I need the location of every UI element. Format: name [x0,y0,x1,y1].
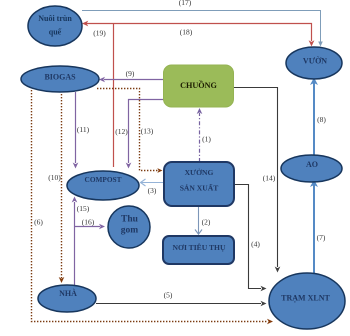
svg-text:gom: gom [121,226,139,236]
svg-text:COMPOST: COMPOST [85,175,122,184]
svg-text:NHÀ: NHÀ [59,288,77,298]
svg-text:(13): (13) [141,127,154,136]
svg-text:(14): (14) [263,174,276,183]
svg-text:(2): (2) [202,218,211,227]
svg-text:(19): (19) [93,29,106,38]
svg-text:(6): (6) [34,218,43,227]
svg-text:(15): (15) [77,204,90,213]
svg-text:SẢN XUẤT: SẢN XUẤT [180,182,219,192]
svg-text:TRẠM XLNT: TRẠM XLNT [281,293,330,302]
svg-text:(11): (11) [77,125,90,134]
svg-text:(16): (16) [82,218,95,227]
svg-text:(9): (9) [126,69,135,78]
svg-text:(1): (1) [202,135,211,144]
svg-text:(17): (17) [179,0,192,7]
svg-text:NƠI TIÊU THỤ: NƠI TIÊU THỤ [173,242,226,252]
svg-text:(8): (8) [317,115,326,124]
svg-text:(5): (5) [164,291,173,300]
svg-text:Thu: Thu [121,215,139,225]
svg-text:VƯỜN: VƯỜN [303,56,327,66]
svg-text:(3): (3) [148,186,157,195]
svg-text:quế: quế [49,28,62,37]
svg-text:(10): (10) [48,173,61,182]
svg-text:(7): (7) [317,233,326,242]
svg-text:CHUỒNG: CHUỒNG [180,80,217,90]
svg-text:BIOGAS: BIOGAS [44,73,76,82]
svg-text:(4): (4) [251,240,260,249]
svg-text:XƯỞNG: XƯỞNG [185,167,214,177]
svg-text:Nuôi trùn: Nuôi trùn [38,14,72,23]
svg-text:(12): (12) [115,127,128,136]
svg-text:(18): (18) [180,28,193,37]
svg-text:AO: AO [306,160,318,169]
